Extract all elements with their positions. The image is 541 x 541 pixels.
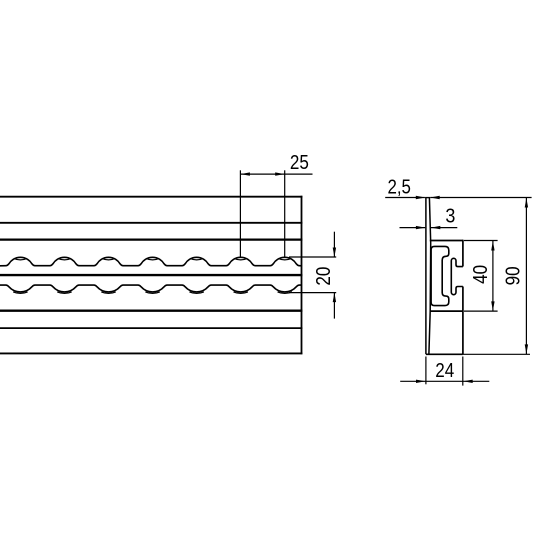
rail middle line [0, 274, 302, 276]
body top face [430, 240, 463, 242]
dimension 40 [464, 240, 498, 242]
dimension 2,5 [385, 197, 425, 199]
svg-text:24: 24 [435, 360, 454, 382]
rail right edge [301, 196, 303, 354]
lower scallop lens arcs [13, 292, 27, 294]
chamber cavity [431, 246, 449, 305]
lower scallop line [0, 285, 302, 292]
rail line 3 [0, 239, 302, 241]
svg-text:25: 25 [290, 152, 309, 174]
blade right edge (tapered) [429, 197, 431, 354]
rail line 5 [0, 310, 302, 312]
dimension 3 [400, 227, 426, 229]
body front face upper [462, 240, 464, 267]
dimension 24 [425, 357, 427, 385]
slot mouth with lips [451, 258, 463, 294]
svg-text:2,5: 2,5 [387, 176, 411, 198]
dimension 20 [289, 256, 336, 258]
upper scallop line [0, 257, 302, 265]
dimension 25 [239, 170, 241, 257]
rail line 6 [0, 327, 302, 329]
rail line 2 [0, 222, 302, 224]
blade left edge [425, 197, 427, 354]
svg-text:90: 90 [502, 266, 524, 285]
svg-text:3: 3 [445, 205, 455, 227]
svg-text:40: 40 [470, 265, 492, 284]
dimension 90 [525, 198, 527, 355]
rail bottom edge [0, 352, 302, 354]
svg-text:20: 20 [313, 267, 335, 286]
rail top edge [0, 196, 302, 198]
body bottom face [426, 353, 463, 355]
blade top cap [425, 197, 430, 199]
body front face lower [462, 287, 464, 355]
upper scallop lens arcs [14, 258, 27, 259]
body internal edge [430, 310, 463, 312]
